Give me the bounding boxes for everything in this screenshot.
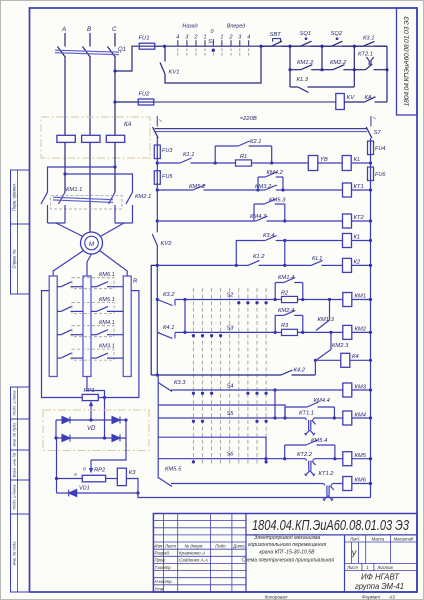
diode VD top-left xyxy=(62,417,70,424)
svg-text:крана КПГ-15-30-10.5В: крана КПГ-15-30-10.5В xyxy=(259,549,315,555)
rotor contact КМ6.1 right xyxy=(91,282,123,287)
VD dash-dot box xyxy=(43,410,149,451)
svg-text:М: М xyxy=(89,241,95,248)
relay K4 label xyxy=(352,354,359,360)
contactor contact KM4.3 xyxy=(252,216,285,221)
contactor KM5 label xyxy=(355,453,367,459)
wire S5 upper link xyxy=(158,405,285,418)
wire R1 leads xyxy=(215,162,272,164)
node K4 row left xyxy=(314,359,317,362)
wire FU2 to KV coil xyxy=(154,101,336,103)
svg-text:RP2: RP2 xyxy=(94,468,106,474)
svg-text:у: у xyxy=(351,548,357,558)
wire KL1 to K2 xyxy=(336,264,342,266)
node K3.1 left xyxy=(353,45,356,48)
rotor contact КМ4.1 label xyxy=(99,320,115,326)
motor M xyxy=(81,232,103,254)
svg-text:К4.2: К4.2 xyxy=(294,368,306,374)
wire row5 lead xyxy=(157,264,236,266)
node VD1 junction xyxy=(136,491,139,494)
node RP1 junction xyxy=(103,396,106,399)
node a label xyxy=(74,473,77,478)
node B label xyxy=(87,26,91,33)
cam contact K3.2 xyxy=(157,300,185,306)
svg-text:1: 1 xyxy=(366,565,368,570)
time contact KT2.2 label xyxy=(297,452,313,458)
node KT2.2 left xyxy=(283,457,286,460)
title block lit labels xyxy=(349,537,414,542)
potentiometer RP2 label xyxy=(94,468,106,474)
svg-text:Назад: Назад xyxy=(182,24,197,30)
current relay KA label xyxy=(124,122,132,128)
diode VD1 label xyxy=(79,486,90,492)
switch S left xyxy=(153,116,163,138)
relay K3 coil xyxy=(117,468,126,485)
contactor contact KM1.4 label xyxy=(278,275,294,281)
wire S3 row xyxy=(185,331,275,333)
rotor contact row КМ6.1 dashed linkage xyxy=(72,278,114,289)
breaker Q1 blade A xyxy=(58,47,66,58)
svg-text:1804.04.КП.ЭиА60.08.01.03 Э3: 1804.04.КП.ЭиА60.08.01.03 Э3 xyxy=(252,517,409,534)
svg-text:ИФ НГАВТ: ИФ НГАВТ xyxy=(361,573,400,582)
node row2 left xyxy=(156,188,159,191)
svg-text:Подп. и дата: Подп. и дата xyxy=(12,484,17,510)
resistor R1 xyxy=(236,160,252,166)
svg-text:4: 4 xyxy=(176,35,179,41)
label 220V xyxy=(240,116,257,122)
wire KM1 to rail xyxy=(352,299,371,301)
left stamp box Podp.i data 2 xyxy=(11,480,30,514)
relay contact KV2 label xyxy=(161,241,173,247)
wire to FU2 xyxy=(115,101,139,103)
contactor contact KM1.3 xyxy=(316,300,330,331)
svg-text:КМ3.1: КМ3.1 xyxy=(99,344,115,350)
time contact KT2.1 xyxy=(354,57,387,70)
rotor contact row КМ4.1 dashed linkage xyxy=(72,326,114,337)
rotor contact КМ6.1 label xyxy=(99,272,115,278)
svg-text:R2: R2 xyxy=(281,290,289,296)
resistor R bank left element xyxy=(49,276,57,377)
contactor KM1 coil xyxy=(343,293,352,307)
time relay KT1 label xyxy=(354,184,364,190)
node K1.3 left xyxy=(288,68,291,71)
fuse FU1 label xyxy=(139,36,150,42)
node KT1.1 left xyxy=(283,416,286,419)
wire row2 to KT1 xyxy=(283,189,342,191)
controller position grid dashed lines xyxy=(193,288,266,464)
wire pole1 lower xyxy=(47,205,49,223)
node KM2.2 top xyxy=(320,45,323,48)
node block rail top xyxy=(156,373,159,376)
time contact KT1.1 label xyxy=(299,411,314,417)
svg-text:КМ4.4: КМ4.4 xyxy=(314,398,330,404)
rotor contact КМ3.1 left xyxy=(57,353,83,358)
svg-text:R3: R3 xyxy=(281,323,289,329)
relay K1 label xyxy=(354,235,361,241)
brake solenoid YB label xyxy=(320,157,328,163)
contactor KM6 coil xyxy=(343,477,352,491)
svg-text:горизонтального перемещения: горизонтального перемещения xyxy=(248,542,326,548)
svg-text:3: 3 xyxy=(238,35,241,41)
label Kopiroval xyxy=(265,594,288,599)
svg-text:1: 1 xyxy=(204,35,207,41)
wire K3.1 bypass drop xyxy=(353,46,355,69)
wire to FU1 xyxy=(115,46,139,71)
svg-text:К1.3: К1.3 xyxy=(297,77,309,83)
fuse FU3 xyxy=(154,145,160,159)
time contact KT1.2 label xyxy=(319,471,335,477)
relay contact K1.2 xyxy=(236,260,284,265)
svg-text:Лист: Лист xyxy=(346,565,358,570)
svg-text:Утв.: Утв. xyxy=(155,586,165,591)
fuse FU2 xyxy=(138,99,154,105)
svg-text:Справ. №: Справ. № xyxy=(12,249,17,268)
svg-text:К4.1: К4.1 xyxy=(163,325,174,331)
contactor KM3 coil xyxy=(343,383,352,397)
relay KV coil xyxy=(336,94,345,110)
svg-text:FU3: FU3 xyxy=(162,148,173,154)
rotor contact КМ6.1 left xyxy=(57,282,83,287)
controller S2 label xyxy=(227,293,235,299)
relay KL label xyxy=(354,157,361,163)
wire K4 row xyxy=(315,359,341,361)
relay K2 coil xyxy=(343,258,352,272)
potentiometer RP2 xyxy=(82,475,105,482)
contactor contact KM1.3 label xyxy=(318,317,335,323)
wire row4 to K1 xyxy=(285,240,343,242)
node A label xyxy=(61,26,66,33)
wire KM2.2 drop xyxy=(321,46,323,69)
wire right rail a xyxy=(370,155,372,168)
wire right riser xyxy=(386,46,388,102)
contactor contact KM1.2 label xyxy=(297,60,314,66)
potentiometer RP1 label xyxy=(84,388,95,394)
node R1 right xyxy=(270,161,273,164)
svg-text:Q1: Q1 xyxy=(118,47,126,53)
node KM1.2 top xyxy=(288,45,291,48)
svg-text:А3: А3 xyxy=(388,594,395,599)
svg-text:S2: S2 xyxy=(227,293,235,299)
svg-text:КТ1.1: КТ1.1 xyxy=(299,411,314,417)
wire bridge right out xyxy=(91,438,126,460)
svg-text:2: 2 xyxy=(229,35,233,41)
svg-text:К4: К4 xyxy=(352,354,359,360)
svg-text:Копировал: Копировал xyxy=(265,594,288,599)
svg-text:КТ2: КТ2 xyxy=(354,215,365,221)
node KM1.2-KM2.2 xyxy=(320,68,323,71)
svg-text:Взам. инв. №: Взам. инв. № xyxy=(12,452,17,477)
wire bridge top row xyxy=(56,419,126,421)
contactor contact KM3.2 xyxy=(258,185,283,190)
svg-text:FU4: FU4 xyxy=(375,146,385,152)
node R2 right xyxy=(301,298,304,301)
wire RP2 wiper feed xyxy=(89,460,93,473)
svg-text:VD: VD xyxy=(87,426,96,432)
contactor contact KM2.4 label xyxy=(278,308,294,314)
svg-text:Кравченко А: Кравченко А xyxy=(179,551,205,556)
fuse FU5 xyxy=(154,171,160,185)
svg-text:Электропривод механизма: Электропривод механизма xyxy=(254,535,321,541)
node KM5 right xyxy=(369,457,372,460)
wire to motor right xyxy=(99,223,125,238)
node bridge right xyxy=(124,418,127,421)
contactor contact KM3.2 label xyxy=(255,184,272,190)
contactor contact KM4.2 label xyxy=(267,170,284,176)
wire to motor left xyxy=(56,223,85,238)
svg-text:группа ЭМ-41: группа ЭМ-41 xyxy=(355,582,404,591)
node bridge in1 xyxy=(89,418,92,421)
wire to KM5 xyxy=(335,458,343,460)
fuse FU4 label xyxy=(375,146,385,152)
relay contact K3.1 xyxy=(354,41,387,46)
relay K1 coil xyxy=(343,234,352,248)
wire row3 lead xyxy=(157,220,252,222)
time contact KT2.2 xyxy=(285,459,335,476)
time relay KT1 coil xyxy=(343,183,352,197)
top-right stamp box xyxy=(397,8,418,115)
left stamp box Vzam.inv.No xyxy=(11,450,30,480)
fuse FU2 label xyxy=(139,92,151,98)
relay contact KL1 xyxy=(307,260,336,265)
svg-text:КТ1.2: КТ1.2 xyxy=(319,471,335,477)
controller S2 closed dots xyxy=(237,301,268,304)
resistor R3 label xyxy=(281,323,289,329)
wire KT2 to rail xyxy=(352,220,371,222)
controller S6 closed dots xyxy=(192,460,268,463)
wire K1.2-K3.4 tie xyxy=(284,241,286,266)
svg-text:б: б xyxy=(83,467,86,473)
wire crossover lower xyxy=(65,174,133,192)
rotor contact КМ5.1 right xyxy=(91,306,123,311)
relay contact KV1 xyxy=(160,46,261,83)
rotor contact КМ4.1 right xyxy=(91,330,123,335)
breaker Q1 linkage bar xyxy=(55,50,119,55)
node row3 left xyxy=(156,219,159,222)
rotor contact КМ5.1 left xyxy=(57,306,83,311)
svg-text:S7: S7 xyxy=(374,130,382,136)
wire R3 leads xyxy=(275,331,303,333)
svg-text:КМ2.3: КМ2.3 xyxy=(332,343,349,349)
contactor contact KM2.2 label xyxy=(330,60,347,66)
current relay contact KA label xyxy=(365,95,372,101)
resistor R2 label xyxy=(281,290,289,296)
svg-text:Дата: Дата xyxy=(232,543,245,548)
svg-text:KV: KV xyxy=(347,95,356,101)
relay contact K2.1 label xyxy=(250,139,261,145)
svg-text:КМ1.2: КМ1.2 xyxy=(297,60,314,66)
wire row1 to YB xyxy=(272,162,309,164)
wire to KM6 xyxy=(340,483,343,485)
wire left rail top xyxy=(156,137,158,145)
wire to KM4 xyxy=(334,417,343,419)
wire pole3 lower xyxy=(114,205,116,223)
wire KM3 to rail xyxy=(352,389,371,391)
title block signature rows xyxy=(155,551,208,592)
svg-text:КМ2.1: КМ2.1 xyxy=(135,194,151,200)
diode VD bottom-left xyxy=(62,435,70,442)
wire phase C below KA xyxy=(114,142,116,192)
fuse FU1 xyxy=(139,43,155,49)
time relay KT2 coil xyxy=(343,214,352,228)
svg-text:4: 4 xyxy=(247,35,250,41)
node K3.2 left xyxy=(156,298,159,301)
contactor contact KM1.4 branch xyxy=(275,278,303,300)
wire S2-S3 tie xyxy=(184,300,186,333)
button SBT label xyxy=(270,32,282,38)
contactor contact KM1.1 label xyxy=(66,187,82,193)
svg-text:КМ2.2: КМ2.2 xyxy=(330,60,347,66)
svg-text:КМ5.5: КМ5.5 xyxy=(165,467,182,473)
label Vpered xyxy=(227,24,245,30)
wire K4 to rail xyxy=(350,359,371,361)
node KM2.2 right xyxy=(353,68,356,71)
rotor contact КМ3.1 label xyxy=(99,344,115,350)
svg-text:КА: КА xyxy=(365,95,372,101)
relay contact K1.3 label xyxy=(297,77,309,83)
wire KM2 to rail xyxy=(352,331,371,333)
wire right rail top xyxy=(370,138,372,145)
svg-text:а: а xyxy=(74,473,77,478)
relay contact K3.1 label xyxy=(363,36,374,42)
wire bank left frame xyxy=(42,291,83,398)
resistor R2 xyxy=(282,296,298,302)
time contact KT1.2 xyxy=(316,484,340,501)
KA dash-dot box xyxy=(41,117,150,158)
wire bridge left side xyxy=(55,420,57,438)
contactor contact KM4.3 label xyxy=(250,214,267,220)
node row5 left xyxy=(156,264,159,267)
svg-text:S1: S1 xyxy=(208,39,215,45)
switch S7 xyxy=(366,116,375,138)
svg-text:К2: К2 xyxy=(354,260,361,266)
node KT2.1 right xyxy=(385,68,388,71)
svg-text:Масштаб: Масштаб xyxy=(394,537,414,542)
left stamp box Inv.No dubl xyxy=(11,419,30,450)
node bridge in2 xyxy=(103,436,106,439)
svg-text:КМ6: КМ6 xyxy=(355,478,367,484)
contactor contact KM5.2 label xyxy=(189,184,206,190)
node KT1.1 right xyxy=(333,416,336,419)
controller S1 closed dot xyxy=(212,49,215,52)
svg-text:KV2: KV2 xyxy=(161,241,173,247)
left stamp box Perv.primen xyxy=(11,170,30,224)
contactor KM6 label xyxy=(355,478,367,484)
contactor contact KM1.1 blade b xyxy=(59,192,66,204)
node KM1.3 top xyxy=(328,298,331,301)
node R3 right xyxy=(301,331,304,334)
node KT2.2 right xyxy=(333,457,336,460)
svg-text:Инв. № подл.: Инв. № подл. xyxy=(12,541,17,566)
relay contact K3.4 xyxy=(256,236,285,241)
svg-text:КМ1.3: КМ1.3 xyxy=(318,317,335,323)
label Format xyxy=(362,594,395,599)
svg-text:KV1: KV1 xyxy=(169,70,180,76)
svg-text:Т.контр.: Т.контр. xyxy=(155,565,172,570)
controller S3 closed dots xyxy=(192,334,222,337)
contactor contact KM4.4 branch xyxy=(285,402,334,418)
fuse FU3 label xyxy=(162,148,173,154)
wire pole join left xyxy=(48,222,66,224)
wire phase C top xyxy=(114,33,116,47)
relay contact K2.1 branch xyxy=(215,141,272,163)
relay contact KV2 xyxy=(152,234,157,265)
wire K4.2 row xyxy=(151,374,281,376)
wire KT1 to rail xyxy=(352,189,371,191)
wire pole2 lower xyxy=(64,205,66,223)
wire S6 to KT2.2 xyxy=(266,458,285,460)
limit switch SQ2 xyxy=(322,37,354,46)
node KM3.2 left xyxy=(256,188,259,191)
wire K2 to rail xyxy=(352,264,371,266)
node S1 rail left xyxy=(163,45,166,48)
node C-FU2 junction xyxy=(113,100,116,103)
title block description xyxy=(242,535,334,564)
contactor contact KM2.3 label xyxy=(332,343,349,349)
svg-text:R1: R1 xyxy=(240,154,247,160)
wire S4 to KM3 xyxy=(275,389,343,391)
wire KM6 to rail xyxy=(352,483,371,485)
current relay KA coil B xyxy=(82,135,100,142)
svg-text:S3: S3 xyxy=(227,326,235,332)
node row1 right xyxy=(369,161,372,164)
contactor contact KM2.1 blade b xyxy=(126,192,133,204)
wire S4 row xyxy=(185,389,275,391)
wire pole join right xyxy=(115,222,133,224)
wire motor to R left xyxy=(53,251,83,277)
node S2 left xyxy=(183,298,186,301)
wire phase B mid xyxy=(89,58,91,136)
button SBT xyxy=(261,39,290,47)
title block doc number xyxy=(252,517,409,534)
svg-text:КМ5.1: КМ5.1 xyxy=(99,297,115,303)
node A-crossover junction xyxy=(63,172,66,175)
node row4 mid xyxy=(283,239,286,242)
node row5 right xyxy=(369,264,372,267)
fuse FU4 xyxy=(368,141,374,155)
svg-text:КМ1: КМ1 xyxy=(355,294,366,300)
wire KL to rail xyxy=(351,162,370,164)
wire S4-S5 tie xyxy=(274,390,276,418)
resistor R label xyxy=(133,279,138,285)
rectifier VD label xyxy=(87,426,96,432)
svg-text:А: А xyxy=(61,26,66,33)
fuse FU6 xyxy=(368,167,374,181)
wire S6 row xyxy=(158,458,266,460)
wire left rail a xyxy=(156,159,158,171)
breaker Q1 blade C xyxy=(108,47,116,58)
wire bottom return xyxy=(138,493,371,498)
current relay KA coil A xyxy=(57,135,75,142)
resistor R bank right element xyxy=(123,276,131,377)
wire row5 to KL1 xyxy=(285,264,307,266)
node K1.2 junction xyxy=(235,264,238,267)
node S2 right xyxy=(369,298,372,301)
contactor KM5 coil xyxy=(343,452,352,466)
contactor contact KM2.1 blade a xyxy=(109,192,116,204)
svg-text:КМ4.1: КМ4.1 xyxy=(99,320,115,326)
wire K4.2 feeder xyxy=(151,265,157,375)
svg-text:К1: К1 xyxy=(354,235,361,241)
relay contact K4.2 label xyxy=(294,368,306,374)
wire FU1 to S1 rail xyxy=(155,45,165,47)
relay contact KL1 label xyxy=(312,256,322,262)
svg-text:КМ4.3: КМ4.3 xyxy=(250,214,267,220)
rotor contact КМ3.1 right xyxy=(91,353,123,358)
node row2 right xyxy=(369,188,372,191)
cam contact K3.3 label xyxy=(174,380,186,386)
wire crossover upper xyxy=(48,167,116,192)
contactor contact KM5.5 xyxy=(158,478,316,487)
